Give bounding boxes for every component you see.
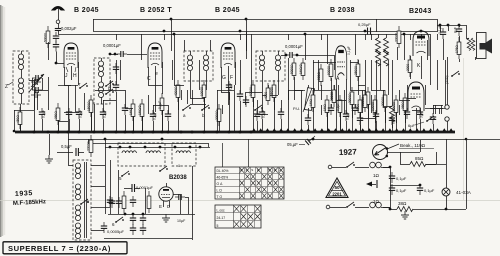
svg-text:0,1µF: 0,1µF [152, 112, 156, 120]
switch mains row1 [332, 167, 346, 169]
svg-text:0,1µF: 0,1µF [158, 101, 162, 109]
wire caps row [390, 185, 420, 187]
capacitor bypass [373, 110, 379, 121]
svg-text:1927: 1927 [339, 147, 358, 157]
capacitor bypass [122, 104, 128, 115]
node bus junction dots [33, 131, 36, 134]
wire pickup right [388, 152, 421, 154]
svg-text:50000: 50000 [330, 92, 334, 101]
coil L2 dashed box [94, 58, 110, 104]
lamp pilot 41-03A [442, 188, 450, 196]
wire PU terminals [445, 105, 449, 109]
svg-text:25000: 25000 [354, 66, 358, 75]
svg-text:L.osc: L.osc [217, 208, 225, 212]
capacitor bypass [113, 81, 119, 92]
variable capacitor arrow 1 [29, 74, 44, 92]
transformer mains dashed box [73, 160, 91, 240]
wire osc top [105, 147, 210, 149]
capacitor 0.1uF output top [440, 28, 446, 39]
svg-text:5: 5 [217, 224, 219, 228]
pickup symbol circle [373, 145, 388, 160]
paper crease horizontal [0, 200, 500, 202]
wire osc cluster [110, 160, 112, 214]
capacitor mains filter 1 [109, 197, 115, 208]
capacitor osc stack b1 [140, 214, 146, 225]
svg-text:450Ω: 450Ω [16, 115, 20, 123]
svg-text:E: E [159, 204, 162, 209]
switch b2 [201, 105, 210, 111]
svg-text:24-17: 24-17 [217, 216, 226, 220]
resistor 25000 [356, 59, 360, 81]
svg-text:H: H [240, 168, 242, 172]
svg-text:G: G [222, 75, 226, 81]
svg-text:Beak., 119Ω: Beak., 119Ω [400, 143, 426, 148]
svg-text:Z: Z [5, 84, 8, 90]
wire y25 speaker feed [437, 25, 466, 27]
resistor 3000Ω [350, 87, 354, 109]
svg-text:0,5µF: 0,5µF [78, 110, 82, 118]
svg-text:0,25µF: 0,25µF [358, 22, 371, 27]
node top bus junctions [170, 18, 173, 21]
wire output box [376, 19, 378, 32]
resistor 1M AF [311, 90, 315, 112]
transformer core [84, 162, 86, 238]
resistor 30000 [394, 95, 398, 117]
resistor 50000 [329, 59, 333, 81]
tube V1 B2045 RF amplifier [64, 43, 78, 68]
wire verticals to bus [34, 90, 36, 131]
wire second lower line [88, 143, 208, 145]
resistor 10000 [202, 80, 206, 102]
ground osc [162, 214, 170, 222]
svg-text:1MΩ/2: 1MΩ/2 [299, 64, 303, 74]
svg-text:50000: 50000 [327, 66, 331, 75]
capacitor 0,1µF [39, 108, 45, 119]
wire bus y34 [58, 34, 430, 36]
svg-text:50000: 50000 [44, 33, 48, 42]
svg-text:0,1µF: 0,1µF [438, 25, 442, 34]
tube V2 B2052T mixer [148, 43, 162, 68]
resistor 25000 [272, 80, 276, 102]
wire tube4 drops [336, 79, 338, 100]
svg-text:50000: 50000 [361, 97, 365, 106]
coil mains choke 2 [355, 207, 369, 209]
wire drops to table [222, 143, 224, 167]
wire osc bottom [104, 238, 192, 240]
svg-text:a: a [183, 113, 186, 118]
svg-text:H: H [257, 168, 259, 172]
transformer osc dashed box 1 [118, 143, 165, 166]
svg-text:0,0001µF: 0,0001µF [103, 43, 121, 48]
switch b on L2 [105, 89, 114, 95]
speaker frame box [477, 33, 487, 59]
transformer leads [91, 165, 105, 167]
switch mains row2 [330, 207, 346, 209]
resistor 0,1µF [160, 93, 164, 115]
svg-text:0,0005µF: 0,0005µF [107, 229, 125, 234]
resistor 2000 top right [397, 26, 401, 48]
resistor 50000b [363, 90, 367, 112]
svg-text:L Ω: L Ω [217, 188, 223, 192]
switch c [254, 105, 263, 111]
svg-text:0,1µF: 0,1µF [261, 110, 265, 118]
switch a [182, 105, 191, 111]
svg-text:6µF: 6µF [408, 123, 416, 128]
wire row1 to caps [383, 167, 390, 169]
speaker transformer zigzag a [467, 38, 471, 51]
capacitor bypass [305, 114, 311, 125]
resistor 1M top left [46, 26, 50, 48]
svg-text:B2038: B2038 [169, 175, 187, 181]
resistor 30000 [383, 90, 387, 112]
capacitor bypass [66, 108, 72, 119]
capacitor trimmer pair b [32, 87, 42, 93]
svg-text:DL 40%: DL 40% [217, 169, 229, 173]
transformer output choke coils [376, 38, 381, 54]
speaker cone [485, 39, 492, 54]
svg-text:0,1µF: 0,1µF [396, 176, 407, 181]
antenna arrow [52, 7, 64, 11]
tube V5 B2043 output upper [413, 31, 429, 56]
svg-text:H: H [73, 73, 77, 79]
svg-text:0,1µF: 0,1µF [396, 188, 407, 193]
wire chassis bus thick [15, 131, 455, 134]
capacitor mains filter 2 [116, 197, 122, 208]
capacitor osc right [175, 194, 185, 200]
svg-text:C: C [147, 76, 151, 82]
svg-text:F: F [230, 75, 233, 81]
capacitor bypass [237, 90, 243, 101]
svg-text:380Ω: 380Ω [401, 101, 405, 109]
wire bus y31 [93, 31, 437, 33]
wire top bus y19 [93, 19, 437, 21]
svg-text:5: 5 [87, 200, 89, 204]
svg-text:380Ω: 380Ω [54, 111, 58, 119]
capacitor 0.1uF a [389, 172, 395, 183]
capacitor 0.002uF antenna series [55, 28, 61, 30]
svg-text:B 2052 T: B 2052 T [140, 7, 172, 14]
resistor 2000c [408, 55, 412, 77]
ground symbol left [45, 155, 53, 163]
svg-text:S: S [251, 168, 253, 172]
svg-text:1MΩ/2: 1MΩ/2 [138, 105, 142, 115]
resistor 2500 [358, 95, 362, 117]
resistor 50000 AF stage [332, 85, 336, 107]
coil L1 antenna dashed box [13, 51, 29, 104]
node oscillator wire dots [109, 146, 112, 149]
capacitor bypass [254, 110, 260, 121]
svg-text:1935: 1935 [15, 190, 33, 198]
terminal circle mains 2 [326, 205, 330, 209]
wire 8uF junction [443, 39, 445, 60]
wire drops from buses [116, 34, 118, 40]
table wave ranges large [215, 167, 284, 199]
switch tone [426, 116, 435, 122]
svg-text:1: 1 [178, 163, 181, 168]
svg-text:20000: 20000 [395, 33, 399, 42]
svg-text:P.U.: P.U. [293, 106, 300, 111]
capacitor bypass [165, 110, 171, 121]
svg-text:3000Ω: 3000Ω [348, 93, 352, 103]
svg-text:B 2038: B 2038 [330, 7, 355, 14]
transformer IF1 dashed box [184, 51, 213, 81]
variable capacitor tuning 1 [31, 79, 41, 85]
resistor 1MΩ [325, 95, 329, 117]
svg-text:10000: 10000 [200, 87, 204, 96]
transformer primary coils [75, 163, 80, 179]
transformer IF2 dashed box [256, 51, 285, 81]
svg-text:2000: 2000 [406, 64, 410, 71]
svg-text:10µF: 10µF [177, 219, 186, 223]
wire osc tube right [173, 194, 180, 196]
resistor 1MΩ [131, 99, 135, 121]
capacitor 0.1uF af1 [328, 104, 334, 115]
resistor 500Ω [319, 64, 323, 86]
capacitor 0,1µF [259, 108, 265, 119]
svg-text:5000Ω: 5000Ω [290, 64, 294, 74]
svg-text:8µF: 8µF [454, 27, 458, 33]
switch 1 osc [159, 166, 168, 172]
transformer osc dashed box 2 [172, 143, 196, 166]
switch 6 [115, 217, 124, 223]
capacitor 0,1µF [150, 110, 156, 121]
variable capacitor tuning 2 [31, 92, 41, 98]
svg-text:38Ω: 38Ω [398, 201, 407, 206]
switch d [105, 81, 114, 87]
wire tube1 electrode drops [64, 67, 66, 85]
capacitor 0.25uF on bus [367, 28, 369, 35]
svg-text:0,002µF: 0,002µF [61, 26, 77, 31]
switch output [451, 71, 460, 77]
capacitor 0,1µF [100, 108, 106, 119]
wire thin line below bus [68, 139, 500, 141]
svg-text:1Ω: 1Ω [373, 173, 380, 178]
svg-text:J: J [65, 73, 68, 79]
resistor 380Ω [403, 93, 407, 115]
svg-text:4000Ω: 4000Ω [174, 86, 178, 96]
svg-text:2201: 2201 [332, 191, 342, 196]
capacitor 0.1uF b [389, 184, 395, 195]
potentiometer volume 1M [304, 88, 314, 111]
resistor 2000 ohm lower left [89, 135, 93, 157]
capacitor top left pair upper [53, 32, 59, 43]
antenna terminal circle [56, 20, 60, 24]
capacitor osc stack a2 [130, 224, 136, 235]
svg-text:7: 7 [78, 82, 81, 87]
svg-text:25000: 25000 [270, 87, 274, 96]
wire horizontal links [14, 110, 34, 112]
resistor 10000 [373, 95, 377, 117]
svg-text:B2043: B2043 [409, 8, 432, 15]
svg-text:85Ω: 85Ω [415, 156, 424, 161]
capacitor osc 1 [107, 196, 113, 207]
capacitor osc stack b2 [140, 224, 146, 235]
tube V3 B2045 IF amplifier [221, 43, 235, 68]
resistor 2000Ω [217, 104, 221, 126]
resistor 4000Ω [176, 80, 180, 102]
capacitor bypass [278, 108, 284, 119]
capacitor 0.5uF af3 [404, 108, 410, 119]
svg-text:2000Ω: 2000Ω [87, 141, 91, 151]
capacitor 0.1uF c [417, 184, 423, 195]
wire osc box left edge [105, 147, 107, 214]
svg-text:B 2045: B 2045 [74, 7, 99, 14]
svg-text:0,1µF: 0,1µF [228, 83, 232, 91]
svg-text:30000: 30000 [381, 97, 385, 106]
wire PU leads [447, 121, 449, 131]
svg-text:0,1µF: 0,1µF [345, 112, 349, 120]
scan shadow left edge [0, 5, 1, 237]
capacitor 0,1µF [226, 81, 232, 92]
svg-text:T O: T O [217, 195, 223, 199]
switch 7 [79, 83, 88, 89]
resistor osc feed [147, 191, 151, 213]
resistor 50000 [366, 87, 370, 109]
wire down to ground left [49, 134, 51, 155]
resistor 5000Ω [292, 58, 296, 80]
svg-text:46-65%: 46-65% [217, 176, 229, 180]
svg-text:1Ω: 1Ω [373, 199, 380, 204]
resistor 50000 osc [122, 191, 126, 213]
svg-text:0,1µF: 0,1µF [102, 110, 106, 118]
resistor 176 ohm [457, 37, 461, 59]
svg-text:O Δ: O Δ [217, 182, 224, 186]
svg-text:176Ω: 176Ω [455, 45, 459, 53]
svg-text:41-03A: 41-03A [456, 190, 472, 195]
svg-text:0,1µF: 0,1µF [347, 46, 351, 55]
wire 85 ohm right to lamp column [426, 164, 446, 166]
tube V6 B2043 output lower [408, 82, 424, 111]
svg-text:D: D [167, 204, 171, 209]
svg-text:05,µF: 05,µF [287, 142, 298, 147]
svg-text:B 2045: B 2045 [215, 7, 240, 14]
tube V7 B2038 oscillator [159, 187, 173, 201]
wire trimmer verticals [32, 78, 34, 90]
wire osc mid horizontal [108, 214, 195, 216]
svg-text:K: K [417, 63, 421, 69]
svg-text:4000: 4000 [264, 92, 268, 99]
capacitor padding x116 [113, 63, 119, 74]
tube V4 B2038 detector [335, 46, 346, 80]
capacitor bypass [357, 114, 363, 125]
wire cap column to grid [56, 52, 58, 64]
resistor 0,5µF [338, 95, 342, 117]
svg-text:50000: 50000 [249, 87, 253, 96]
speaker transformer zigzag b [471, 38, 475, 51]
ground 38 ohm [401, 211, 409, 219]
capacitor 6µF [389, 114, 395, 125]
wire tube2 electrode drops [148, 67, 150, 85]
capacitor 0,5µF [76, 108, 82, 119]
speaker magnet [480, 43, 486, 50]
svg-text:F: F [246, 168, 248, 172]
coil mains choke 1 [355, 167, 369, 169]
capacitor 0,1µF [343, 110, 349, 121]
wire extra af links [313, 62, 336, 64]
capacitor bypass [430, 113, 436, 124]
capacitor 8uF [456, 25, 462, 36]
wire tube3 electrode drops [221, 67, 223, 85]
svg-text:2000Ω: 2000Ω [215, 110, 219, 120]
resistor zigzag AF [390, 106, 395, 122]
resistor 50000 [251, 80, 255, 102]
resistor 4000 right IF [266, 83, 270, 105]
resistor 1500Ω [89, 95, 93, 117]
resistor 450Ω [18, 107, 22, 129]
pickup input arrow [366, 182, 372, 187]
resistor 380Ω [56, 103, 60, 125]
terminal circle mains 1 [328, 165, 332, 169]
table small lower [215, 205, 261, 228]
capacitor 3µF [417, 108, 423, 119]
svg-text:0,0001µF: 0,0001µF [136, 185, 154, 190]
svg-text:50: 50 [334, 185, 340, 190]
svg-text:0,1µF: 0,1µF [424, 188, 435, 193]
svg-text:1MΩ: 1MΩ [309, 99, 313, 106]
capacitor trimmer pair a [32, 75, 42, 81]
svg-text:1500Ω: 1500Ω [87, 101, 91, 111]
wire antenna coil to grid [29, 80, 34, 82]
paper crease vertical right [463, 58, 465, 200]
dial scale triangles [252, 128, 453, 131]
svg-text:SUPERBELL 7 = (2230-A): SUPERBELL 7 = (2230-A) [8, 244, 111, 253]
resistor 1MΩ/2 [301, 58, 305, 80]
wire bottom right column [466, 139, 468, 209]
svg-text:0,0001µF: 0,0001µF [285, 44, 303, 49]
svg-text:A: A [279, 168, 281, 172]
switch 5 [121, 171, 130, 177]
svg-text:1MΩ: 1MΩ [323, 104, 327, 111]
warning triangle 50 2201 [326, 178, 348, 198]
capacitor osc stack a1 [130, 214, 136, 225]
nameplate box SUPERBELL [3, 242, 127, 254]
svg-text:0,1µF: 0,1µF [41, 110, 45, 118]
capacitor osc left small [101, 222, 107, 233]
svg-text:3µF: 3µF [419, 112, 423, 118]
switch mains [80, 199, 89, 205]
svg-text:6: 6 [112, 222, 115, 227]
svg-text:0,5µF: 0,5µF [61, 144, 72, 149]
resistor 1MΩ/2 [140, 99, 144, 121]
capacitor IF bypass x246 [243, 96, 249, 107]
capacitor 0.1uF af2 [352, 104, 358, 115]
wire grid top segments [14, 110, 16, 131]
callout line to Beak label [387, 144, 399, 149]
capacitor top left pair lower [53, 41, 59, 52]
capacitor osc 2 [130, 196, 136, 207]
svg-text:M.F-185kHz: M.F-185kHz [13, 199, 46, 207]
